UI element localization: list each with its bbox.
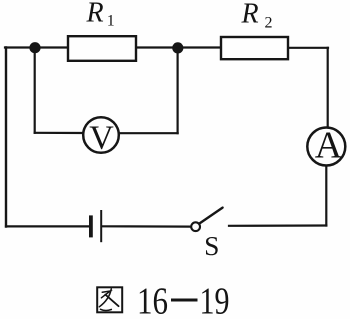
svg-text:R: R xyxy=(241,0,259,30)
wire voltmeter branch left horizontal xyxy=(35,132,84,134)
ammeter A xyxy=(307,125,345,167)
resistor R2 xyxy=(221,37,288,59)
battery cell xyxy=(91,210,101,242)
wire battery to switch xyxy=(102,225,191,228)
wire right vertical lower xyxy=(325,166,327,226)
svg-text:19: 19 xyxy=(200,281,230,319)
switch S xyxy=(191,208,222,262)
wire voltmeter branch left vertical xyxy=(34,48,36,133)
wire bottom-right segment xyxy=(229,224,326,227)
label R1 xyxy=(86,0,115,30)
svg-text:S: S xyxy=(204,230,219,261)
wire right vertical upper xyxy=(327,48,329,128)
battery negative plate (short thick) xyxy=(89,215,93,237)
wire after R2 to top-right corner xyxy=(288,47,328,49)
wire bottom-left segment xyxy=(6,225,89,227)
wire between R1 and R2 xyxy=(136,46,221,48)
wire voltmeter branch right vertical xyxy=(177,48,179,134)
wire left vertical xyxy=(5,48,7,227)
svg-text:V: V xyxy=(89,120,114,157)
wire voltmeter branch right horizontal xyxy=(119,132,178,134)
resistor R1 xyxy=(68,36,136,61)
svg-text:1: 1 xyxy=(107,13,115,30)
label R2 xyxy=(241,0,273,32)
caption dash xyxy=(171,299,198,302)
svg-text:16: 16 xyxy=(137,281,168,319)
svg-text:A: A xyxy=(315,125,343,167)
svg-text:2: 2 xyxy=(265,15,273,32)
voltmeter V xyxy=(83,117,119,156)
junction node right xyxy=(172,42,183,53)
svg-text:R: R xyxy=(86,0,104,29)
caption: character 图 drawn as strokes xyxy=(97,287,122,312)
junction node left xyxy=(29,42,40,53)
wire top-left segment xyxy=(5,46,68,48)
battery positive plate (long thin) xyxy=(100,210,102,242)
